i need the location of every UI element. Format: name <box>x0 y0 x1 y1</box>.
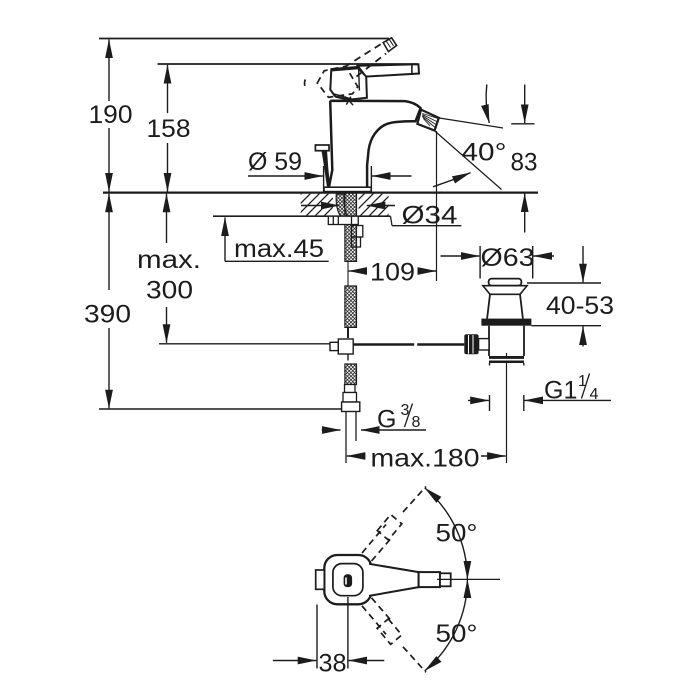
aerator <box>417 110 438 131</box>
dimension 109 <box>349 270 436 272</box>
hose braided segment low <box>345 364 357 385</box>
waste knurled knob <box>464 334 478 354</box>
dimension Ø59 <box>248 166 412 191</box>
top view lever grip <box>419 572 440 587</box>
pop-up knob on faucet <box>315 145 329 151</box>
svg-text:40-53: 40-53 <box>546 292 614 320</box>
dimension Ø63 <box>441 246 555 279</box>
top view lever cap <box>440 573 451 586</box>
svg-text:190: 190 <box>89 101 133 129</box>
waste lower body <box>489 326 524 356</box>
svg-text:40°: 40° <box>462 139 507 167</box>
axis line <box>437 578 500 580</box>
dimension 390 vertical line <box>108 194 110 409</box>
top reference line (max lever height) <box>99 38 389 40</box>
svg-text:4: 4 <box>590 386 599 403</box>
waste push button <box>489 279 522 286</box>
svg-text:G1: G1 <box>544 377 577 405</box>
dimension 190 vertical line <box>108 40 110 192</box>
Ø34 label shelf <box>391 216 393 226</box>
dimension max.45 leader <box>225 217 329 261</box>
handle lever raised dashed <box>344 43 386 77</box>
mounting nut under deck <box>328 216 358 224</box>
dimension 38 <box>273 597 384 669</box>
threaded shank below deck <box>345 193 357 262</box>
flexible hose through deck hole <box>336 194 347 217</box>
40 deg pointer arrow <box>486 85 489 124</box>
dimension Ø34 arrows at shank <box>301 205 395 207</box>
svg-text:38: 38 <box>319 650 347 678</box>
svg-text:max.45: max.45 <box>234 235 324 263</box>
svg-text:Ø 59: Ø 59 <box>248 148 302 176</box>
horizontal pop-up rod <box>353 343 414 345</box>
dimension 158 vertical line <box>167 65 169 192</box>
top view cartridge mark <box>344 574 353 587</box>
top view outer body <box>324 555 371 604</box>
G3/8 nut <box>342 402 360 412</box>
label G3/8 <box>377 402 421 434</box>
svg-text:Ø34: Ø34 <box>402 202 458 230</box>
waste upper body <box>487 294 523 318</box>
svg-text:max.180: max.180 <box>371 445 480 473</box>
waste centerline down <box>506 353 508 463</box>
connection pipe below nut <box>345 412 347 464</box>
bottom reference line of 390 <box>99 408 341 410</box>
svg-text:300: 300 <box>146 277 193 305</box>
swing arc lower <box>425 579 468 671</box>
pop-up knob stem <box>322 151 331 188</box>
waste top flange <box>483 286 527 295</box>
handle lever rest position <box>358 64 419 76</box>
40 deg arc arrow <box>433 173 471 187</box>
83 top extension tick <box>511 123 534 125</box>
vertical reference line from aerator <box>436 131 438 281</box>
top view lever arm <box>369 564 419 596</box>
svg-text:390: 390 <box>84 301 131 329</box>
faucet body outline <box>329 101 421 188</box>
outlet plane line (40 deg leg) <box>439 118 503 128</box>
top view pop-up tab <box>316 570 325 589</box>
svg-text:50°: 50° <box>436 520 478 548</box>
label G1 1/4 <box>544 373 599 405</box>
svg-text:50°: 50° <box>436 620 478 648</box>
faucet base plinth <box>324 187 371 191</box>
handle base raised dashed <box>317 66 358 97</box>
shank centerline <box>347 262 349 287</box>
top view inner body <box>333 564 363 596</box>
hose braided segment mid <box>345 286 357 327</box>
svg-text:158: 158 <box>147 115 191 143</box>
dimension max.300 vertical line <box>166 194 168 343</box>
second reference line (lever rest height) <box>158 63 418 65</box>
svg-text:Ø63: Ø63 <box>481 244 535 272</box>
spray axis line <box>435 131 502 190</box>
countertop deck bottom line <box>213 215 391 217</box>
pop-up rod cross fitting <box>330 339 353 361</box>
svg-text:max.: max. <box>137 246 201 274</box>
svg-text:83: 83 <box>511 149 538 177</box>
83 arrows <box>524 85 526 233</box>
svg-text:109: 109 <box>370 259 415 287</box>
waste tailpiece band <box>489 356 524 363</box>
waste seal ring <box>481 319 531 326</box>
dimension 40-53 <box>527 246 601 347</box>
deck hatch right <box>359 194 389 216</box>
dimension max.180 <box>347 455 506 457</box>
swing arc upper <box>425 488 468 580</box>
dashed lever lower 50deg <box>362 598 426 673</box>
hose connection fittings on shank <box>352 226 363 248</box>
hose thin segment to rod joint <box>347 327 349 338</box>
svg-text:8: 8 <box>412 414 421 431</box>
handle base solid <box>330 68 367 106</box>
raised lever end cap <box>383 38 396 52</box>
G3/8 arrows <box>322 429 426 431</box>
knob neck <box>479 339 489 350</box>
deck hatch left <box>301 194 333 216</box>
countertop deck top line <box>103 192 538 194</box>
waste pop-up assembly <box>464 279 531 366</box>
dimension G1 1/4 <box>468 395 611 411</box>
dashed lever upper 50deg <box>362 487 426 562</box>
extension line to pop-up rod <box>159 343 332 345</box>
hose connector <box>343 385 357 403</box>
